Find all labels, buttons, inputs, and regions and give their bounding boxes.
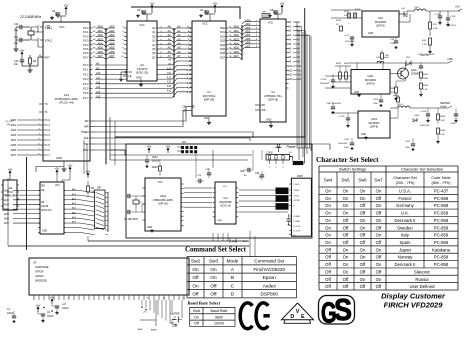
svg-text:CON2: CON2: [266, 152, 273, 155]
svg-text:France: France: [398, 196, 412, 201]
svg-text:A6: A6: [177, 50, 181, 54]
svg-text:Italy: Italy: [401, 233, 410, 238]
svg-text:P1.7: P1.7: [45, 153, 51, 157]
svg-text:R112: R112: [344, 11, 350, 13]
svg-text:+24V: +24V: [172, 325, 178, 328]
svg-text:Slavonic: Slavonic: [414, 269, 431, 274]
svg-text:A12: A12: [167, 76, 172, 79]
svg-text:Sweden: Sweden: [397, 225, 413, 230]
svg-text:Off: Off: [343, 240, 349, 245]
svg-text:PC-858: PC-858: [434, 225, 449, 230]
svg-text:C106: C106: [450, 123, 456, 125]
svg-text:C102: C102: [405, 141, 411, 143]
svg-text:AD0: AD0: [109, 25, 115, 29]
svg-text:AT89C2051-24PU: AT89C2051-24PU: [153, 199, 173, 202]
svg-text:JP1: JP1: [182, 141, 187, 144]
svg-text:On: On: [360, 189, 366, 194]
svg-text:100u/50V: 100u/50V: [338, 143, 348, 145]
svg-text:Off: Off: [192, 275, 199, 280]
svg-text:2.2K: 2.2K: [440, 134, 445, 136]
svg-text:+5V: +5V: [8, 167, 13, 171]
svg-text:On: On: [325, 203, 331, 208]
svg-text:U.K.: U.K.: [401, 211, 409, 216]
svg-text:9 +13V: 9 +13V: [293, 231, 301, 233]
svg-text:(SOIC-16): (SOIC-16): [220, 206, 231, 208]
svg-text:AD3: AD3: [234, 37, 240, 41]
svg-text:On: On: [325, 189, 331, 194]
svg-text:P1.1: P1.1: [45, 123, 51, 127]
svg-text:P0.4: P0.4: [83, 43, 89, 47]
svg-text:R202: R202: [344, 63, 350, 65]
svg-text:JAPAN: JAPAN: [35, 274, 44, 278]
svg-text:AW4: AW4: [11, 139, 17, 142]
svg-text:GND: GND: [361, 134, 366, 136]
svg-text:(DIP-28): (DIP-28): [204, 98, 215, 102]
svg-text:L201: L201: [376, 57, 382, 59]
svg-text:220u/50V: 220u/50V: [320, 83, 330, 85]
svg-text:100nF: 100nF: [7, 313, 14, 315]
svg-text:A12: A12: [187, 78, 192, 81]
svg-text:On: On: [376, 203, 382, 208]
svg-text:Denmark II: Denmark II: [394, 218, 415, 223]
svg-text:+5V: +5V: [64, 3, 69, 7]
svg-text:Sw4: Sw4: [324, 178, 333, 183]
svg-text:A14: A14: [167, 85, 172, 88]
svg-text:U6: U6: [140, 63, 144, 67]
svg-text:P2.7: P2.7: [83, 96, 89, 100]
svg-text:100nF: 100nF: [47, 316, 54, 318]
svg-text:Mode: Mode: [227, 259, 239, 264]
svg-text:Off: Off: [360, 262, 366, 267]
svg-text:geprüfte: geprüfte: [337, 316, 345, 319]
svg-text:AD7: AD7: [234, 54, 240, 58]
svg-text:Russia: Russia: [415, 277, 429, 282]
svg-text:U101: U101: [371, 118, 378, 121]
svg-text:R203: R203: [423, 74, 429, 76]
svg-text:Q201: Q201: [411, 70, 417, 72]
svg-text:AD3: AD3: [98, 37, 104, 41]
svg-text:On: On: [360, 247, 366, 252]
svg-text:Command Set Select: Command Set Select: [185, 247, 247, 254]
svg-text:Off: Off: [343, 284, 349, 289]
svg-text:(SOIC-20): (SOIC-20): [41, 210, 52, 212]
svg-text:(DIP-8): (DIP-8): [370, 126, 378, 129]
svg-text:Off: Off: [343, 218, 349, 223]
svg-text:P1.6: P1.6: [45, 148, 51, 152]
svg-text:Off: Off: [376, 284, 382, 289]
svg-text:AD1: AD1: [245, 22, 251, 26]
svg-text:A4: A4: [168, 42, 172, 46]
svg-text:P1.3: P1.3: [45, 133, 51, 137]
svg-text:AD4: AD4: [245, 33, 251, 37]
svg-text:(PLCC-44): (PLCC-44): [59, 101, 73, 105]
svg-text:+4.8V: +4.8V: [440, 106, 447, 109]
svg-text:On: On: [194, 315, 199, 319]
svg-text:NORITAKE: NORITAKE: [35, 265, 49, 269]
svg-text:U12: U12: [223, 198, 228, 200]
svg-text:Off: Off: [325, 269, 331, 274]
svg-text:AD5: AD5: [98, 46, 104, 50]
svg-text:VCC: VCC: [59, 25, 65, 29]
svg-text:ALE: ALE: [84, 136, 89, 140]
svg-text:Sw3: Sw3: [209, 259, 219, 264]
svg-text:(SOIC-20): (SOIC-20): [136, 71, 148, 75]
svg-text:PSEN: PSEN: [81, 130, 88, 134]
svg-text:7.5K: 7.5K: [423, 89, 428, 91]
svg-text:P0.7: P0.7: [83, 55, 89, 59]
svg-text:VCC: VCC: [55, 185, 60, 187]
svg-text:AN1: AN1: [4, 194, 9, 197]
svg-text:Off: Off: [360, 203, 366, 208]
svg-text:Off: Off: [360, 269, 366, 274]
svg-text:On: On: [325, 233, 331, 238]
svg-text:AW6: AW6: [11, 149, 17, 152]
svg-text:Off: Off: [325, 284, 331, 289]
svg-text:100n: 100n: [344, 147, 350, 149]
svg-text:AN5: AN5: [4, 213, 9, 216]
svg-text:P0.5: P0.5: [83, 47, 89, 51]
svg-text:AD7: AD7: [245, 44, 251, 48]
svg-text:PC-858: PC-858: [434, 203, 449, 208]
svg-text:6 GND: 6 GND: [293, 216, 300, 218]
svg-text:GND: GND: [147, 227, 152, 229]
svg-text:L101: L101: [398, 104, 404, 106]
svg-text:B: B: [231, 275, 234, 280]
svg-text:Off: Off: [343, 225, 349, 230]
svg-text:+C207: +C207: [320, 79, 327, 81]
svg-text:AW1: AW1: [11, 124, 17, 127]
svg-text:AD4: AD4: [234, 42, 240, 46]
svg-text:+5V: +5V: [143, 312, 147, 314]
svg-text:+5V: +5V: [147, 144, 152, 148]
svg-text:RD: RD: [262, 104, 266, 107]
svg-text:P0.0: P0.0: [83, 26, 89, 30]
svg-text:200K: 200K: [423, 78, 429, 80]
svg-text:3 TxD: 3 TxD: [293, 196, 299, 198]
svg-text:A10: A10: [288, 65, 293, 68]
svg-text:L7835900L-70LL: L7835900L-70LL: [264, 95, 283, 98]
svg-text:Off: Off: [360, 233, 366, 238]
svg-text:P2.5: P2.5: [83, 87, 89, 91]
svg-text:P1.4: P1.4: [45, 138, 51, 142]
svg-text:Germany: Germany: [396, 203, 415, 208]
svg-text:+5V: +5V: [55, 166, 60, 170]
svg-text:AD7: AD7: [98, 54, 104, 58]
svg-text:Baud Rate Select: Baud Rate Select: [188, 300, 221, 305]
svg-text:On: On: [376, 218, 382, 223]
svg-text:AN4: AN4: [4, 208, 9, 211]
svg-text:P0.6: P0.6: [83, 51, 89, 55]
svg-text:XTAL1: XTAL1: [45, 26, 53, 30]
svg-text:+C103: +C103: [338, 116, 345, 118]
svg-text:E: E: [301, 314, 305, 320]
svg-text:AD3: AD3: [245, 30, 251, 34]
svg-text:DQ6: DQ6: [220, 52, 226, 55]
svg-text:22.11808 MHz: 22.11808 MHz: [20, 15, 42, 19]
svg-text:A10: A10: [167, 68, 172, 71]
svg-text:100nF: 100nF: [62, 308, 69, 310]
svg-text:Off: Off: [376, 196, 382, 201]
svg-text:On: On: [360, 218, 366, 223]
svg-text:C12: C12: [14, 23, 19, 26]
svg-text:LE: LE: [129, 75, 132, 78]
svg-text:Sw6: Sw6: [358, 178, 367, 183]
svg-text:OC: OC: [129, 71, 133, 74]
svg-text:74LS373: 74LS373: [137, 67, 148, 71]
svg-text:On: On: [360, 277, 366, 282]
svg-text:AD1: AD1: [234, 29, 240, 33]
svg-text:A12: A12: [288, 74, 293, 77]
svg-text:C30: C30: [255, 173, 260, 175]
svg-text:AWB: AWB: [232, 240, 237, 243]
svg-text:C202: C202: [373, 99, 379, 101]
svg-text:+5V: +5V: [50, 295, 55, 299]
svg-text:On: On: [360, 225, 366, 230]
svg-text:A13: A13: [288, 78, 293, 81]
svg-text:DIP: DIP: [97, 187, 101, 190]
svg-text:P0.3: P0.3: [83, 39, 89, 43]
svg-text:WR: WR: [262, 109, 266, 112]
svg-text:On: On: [325, 211, 331, 216]
svg-text:GND: GND: [217, 220, 222, 222]
svg-text:C11: C11: [14, 36, 19, 39]
svg-text:Off: Off: [360, 211, 366, 216]
svg-text:PC-858: PC-858: [434, 218, 449, 223]
svg-text:Switch Settings: Switch Settings: [339, 167, 366, 172]
svg-text:AN6: AN6: [4, 217, 9, 220]
svg-text:10u: 10u: [14, 63, 19, 66]
svg-text:AD2: AD2: [245, 26, 251, 30]
svg-text:AD4: AD4: [98, 42, 104, 46]
svg-text:AD6: AD6: [234, 50, 240, 54]
svg-text:Epson: Epson: [263, 275, 277, 280]
svg-text:Off: Off: [376, 269, 382, 274]
svg-text:Off: Off: [210, 292, 217, 297]
svg-text:On: On: [325, 240, 331, 245]
svg-text:On: On: [210, 267, 217, 272]
svg-text:2SD882: 2SD882: [411, 74, 420, 76]
svg-text:PC-858: PC-858: [434, 196, 449, 201]
svg-text:A2: A2: [177, 33, 181, 37]
svg-text:OE: OE: [183, 106, 187, 109]
svg-text:AW5: AW5: [11, 144, 17, 147]
svg-text:On: On: [376, 262, 382, 267]
svg-text:HEATER: HEATER: [170, 313, 180, 316]
svg-text:AD2: AD2: [234, 33, 240, 37]
svg-text:Off: Off: [343, 233, 349, 238]
svg-text:(20h - 7Fh): (20h - 7Fh): [396, 181, 416, 185]
svg-text:AW0: AW0: [138, 328, 143, 331]
svg-text:DQ4: DQ4: [220, 44, 226, 47]
svg-text:MC34063: MC34063: [365, 79, 376, 82]
svg-text:A6: A6: [168, 50, 172, 54]
svg-text:S: S: [334, 292, 352, 327]
svg-text:DIR: DIR: [41, 186, 45, 188]
svg-text:+C203 220u/100V: +C203 220u/100V: [417, 54, 435, 56]
svg-text:(1mH): (1mH): [383, 57, 389, 59]
svg-text:A13: A13: [297, 78, 302, 81]
svg-text:Aedex: Aedex: [263, 283, 277, 288]
svg-text:HIN232CBZ: HIN232CBZ: [219, 202, 232, 204]
svg-text:+5V: +5V: [280, 1, 285, 5]
svg-text:C20: C20: [240, 171, 245, 173]
svg-text:On: On: [360, 196, 366, 201]
svg-text:+35V: +35V: [447, 57, 453, 61]
svg-text:1,2,3,4,7: 1,2,3,4,7: [5, 121, 14, 123]
svg-text:U202: U202: [160, 195, 167, 198]
svg-text:A14: A14: [187, 86, 192, 89]
svg-text:FirichVCD5220: FirichVCD5220: [253, 267, 285, 272]
svg-text:C204: C204: [152, 157, 158, 159]
svg-text:DQ5: DQ5: [220, 48, 226, 51]
svg-text:A3: A3: [177, 37, 181, 41]
svg-text:PC-858: PC-858: [434, 211, 449, 216]
svg-text:VCC: VCC: [157, 181, 162, 184]
svg-text:On: On: [210, 275, 217, 280]
svg-text:A3: A3: [168, 37, 172, 41]
svg-text:XTAL2: XTAL2: [45, 39, 53, 43]
svg-text:100n: 100n: [390, 43, 396, 45]
svg-text:GND: GND: [42, 231, 47, 233]
svg-text:LS245: LS245: [41, 205, 49, 208]
svg-text:Sw2: Sw2: [191, 259, 201, 264]
svg-text:DQ7: DQ7: [220, 56, 226, 59]
svg-text:22u/25V: 22u/25V: [152, 161, 161, 163]
svg-text:9600: 9600: [215, 315, 223, 319]
svg-text:VCC: VCC: [268, 22, 273, 25]
svg-text:P2.6: P2.6: [83, 91, 89, 95]
svg-text:R201: R201: [336, 63, 342, 65]
svg-text:MC34063: MC34063: [369, 122, 380, 125]
svg-text:47u/16V: 47u/16V: [448, 25, 457, 27]
svg-text:+5V: +5V: [36, 303, 41, 307]
svg-text:PC-858: PC-858: [434, 233, 449, 238]
svg-text:C101: C101: [344, 139, 350, 141]
svg-text:Off: Off: [192, 292, 199, 297]
svg-text:R202: R202: [152, 167, 158, 169]
svg-text:Off: Off: [325, 247, 331, 252]
svg-text:U201: U201: [368, 75, 375, 78]
svg-text:AN0: AN0: [4, 190, 9, 193]
svg-text:Power: Power: [287, 145, 297, 149]
svg-text:On: On: [325, 225, 331, 230]
svg-text:L202: L202: [414, 7, 420, 9]
svg-text:A1: A1: [168, 29, 172, 33]
svg-text:C303 10u/100V: C303 10u/100V: [326, 103, 342, 105]
svg-text:VCC: VCC: [139, 24, 144, 27]
svg-text:Character Set Select: Character Set Select: [316, 156, 379, 164]
svg-text:AD3: AD3: [109, 37, 115, 41]
svg-text:Baud Rate: Baud Rate: [211, 309, 228, 313]
svg-text:RD: RD: [85, 119, 89, 123]
svg-text:+5V: +5V: [150, 1, 155, 5]
svg-text:Norway: Norway: [398, 255, 413, 260]
svg-text:AD2: AD2: [109, 33, 115, 37]
svg-text:AW3: AW3: [11, 134, 17, 137]
svg-text:Denmark II: Denmark II: [394, 262, 415, 267]
svg-text:A0: A0: [177, 25, 181, 29]
svg-text:AD0: AD0: [98, 25, 104, 29]
svg-text:A11: A11: [187, 73, 192, 76]
svg-text:+C17: +C17: [344, 35, 350, 37]
svg-text:UP: UP: [33, 262, 37, 265]
svg-text:AUTO: AUTO: [243, 240, 249, 243]
svg-text:+5V: +5V: [213, 1, 218, 5]
svg-text:A15: A15: [187, 91, 192, 94]
svg-text:P1.0: P1.0: [45, 118, 51, 122]
svg-text:On: On: [376, 233, 382, 238]
svg-text:CE: CE: [183, 110, 187, 113]
svg-text:VCC: VCC: [223, 186, 228, 188]
svg-text:GND: GND: [354, 92, 359, 94]
svg-text:R106: R106: [440, 116, 446, 118]
svg-text:GND: GND: [56, 156, 62, 160]
svg-text:DQ3: DQ3: [220, 40, 226, 43]
svg-text:AD1: AD1: [109, 29, 115, 33]
svg-text:AD7: AD7: [109, 54, 115, 58]
svg-text:P1.5: P1.5: [45, 143, 51, 147]
svg-text:A1: A1: [177, 29, 181, 33]
svg-text:Display Customer: Display Customer: [381, 292, 446, 301]
svg-text:R204: R204: [423, 85, 429, 87]
svg-text:Code Table: Code Table: [431, 176, 450, 180]
svg-text:2.6K: 2.6K: [433, 28, 438, 30]
svg-text:On: On: [192, 267, 199, 272]
svg-text:PC-858: PC-858: [434, 240, 449, 245]
svg-text:Off: Off: [376, 240, 382, 245]
svg-text:8 +12V: 8 +12V: [293, 226, 301, 228]
svg-text:On: On: [192, 283, 199, 288]
svg-text:On: On: [343, 255, 349, 260]
svg-text:VCC: VCC: [202, 23, 207, 26]
svg-text:On: On: [343, 189, 349, 194]
svg-text:Off: Off: [325, 277, 331, 282]
svg-text:AD6: AD6: [245, 41, 251, 45]
svg-text:Japan: Japan: [399, 247, 411, 252]
svg-text:1.2K: 1.2K: [422, 44, 427, 46]
svg-text:A7: A7: [177, 54, 181, 58]
svg-text:+5V: +5V: [455, 5, 460, 9]
svg-text:Off: Off: [210, 283, 217, 288]
svg-text:Character Set Selection: Character Set Selection: [401, 167, 443, 172]
svg-text:A15: A15: [167, 90, 172, 93]
svg-text:RST: RST: [45, 56, 51, 60]
svg-text:MC34063: MC34063: [375, 20, 387, 24]
svg-text:D: D: [290, 314, 294, 320]
svg-text:On: On: [343, 196, 349, 201]
svg-text:(80h - FFh): (80h - FFh): [432, 181, 452, 185]
svg-text:A4: A4: [177, 42, 181, 46]
svg-text:U.S.A.: U.S.A.: [399, 189, 411, 194]
svg-text:On: On: [325, 218, 331, 223]
svg-text:R104: R104: [440, 130, 446, 132]
svg-text:On: On: [376, 189, 382, 194]
svg-text:470u/50V: 470u/50V: [345, 41, 355, 43]
svg-text:P0.2: P0.2: [83, 34, 89, 38]
svg-text:+5V: +5V: [166, 144, 171, 148]
svg-text:Off: Off: [376, 211, 382, 216]
svg-text:4 DTR: 4 DTR: [293, 200, 300, 202]
svg-text:AWM: AWM: [151, 329, 156, 332]
svg-text:R113: R113: [336, 20, 342, 22]
svg-text:AD0: AD0: [245, 18, 251, 22]
svg-text:R206: R206: [390, 88, 396, 90]
svg-text:A13: A13: [167, 81, 172, 84]
svg-text:AD2: AD2: [98, 33, 104, 37]
svg-text:AN7: AN7: [4, 222, 9, 225]
svg-text:A5: A5: [168, 46, 172, 50]
svg-text:P0.1: P0.1: [83, 30, 89, 34]
